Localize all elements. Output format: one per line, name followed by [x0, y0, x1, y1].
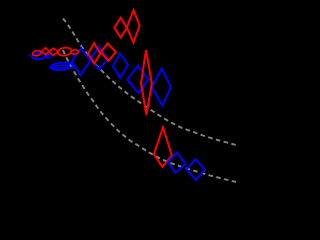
red kite Ered — [154, 127, 172, 167]
blue small ellipse A7 — [46, 53, 53, 58]
red diamond Rb — [101, 43, 116, 60]
red diamond Ra — [88, 43, 100, 63]
red ellipse A5 — [57, 47, 72, 57]
red diamond Cright — [127, 10, 140, 42]
dashed curve L (lower-right theoretical curve) — [63, 50, 236, 182]
red diamond A2 — [42, 48, 49, 55]
red ellipse A5b — [71, 49, 79, 54]
blue lens A8 outer — [50, 62, 73, 71]
blue lens A8 inner — [52, 65, 69, 69]
blue diamond Bbig — [127, 66, 148, 94]
red diamond Cleft — [114, 18, 127, 38]
red kite Dred — [141, 50, 152, 115]
blue diamond D1 — [72, 48, 91, 75]
blue diamond Eb1 — [168, 153, 186, 173]
blue ellipse A6 (left chain) — [32, 53, 47, 60]
dashed curve U (upper-left theoretical curve) — [63, 19, 236, 146]
blue tick far-left — [28, 54, 30, 57]
red diamond A4 — [49, 48, 58, 55]
blue diamond Eb2 — [186, 159, 205, 180]
red ellipse A1 — [32, 50, 42, 56]
blue diamond Bd3 — [152, 69, 171, 106]
blue diamond Bmid — [113, 53, 128, 78]
blue diamond D2 — [90, 47, 107, 70]
